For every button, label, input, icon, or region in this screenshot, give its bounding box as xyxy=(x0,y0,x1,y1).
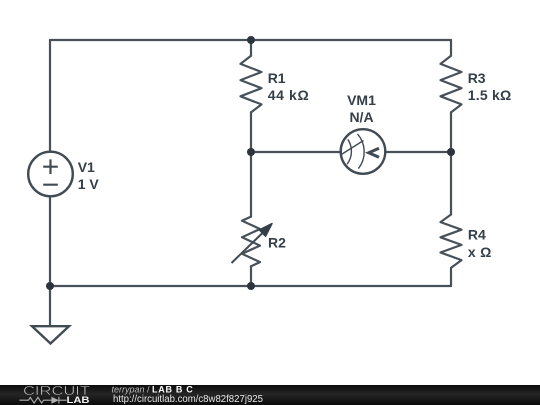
svg-text:1.5 kΩ: 1.5 kΩ xyxy=(468,87,512,103)
wire R1 bottom lead xyxy=(250,112,252,152)
resistor R3 xyxy=(441,56,462,113)
svg-text:N/A: N/A xyxy=(349,109,373,125)
logo wire squiggle with resistor and diode xyxy=(19,397,66,404)
node junction (451,152) xyxy=(447,148,455,156)
ground xyxy=(32,326,69,343)
wire middle right xyxy=(385,151,451,153)
wire R4 top lead xyxy=(450,152,452,215)
wire bottom rail xyxy=(50,285,451,287)
rheostat R2 arrow xyxy=(232,224,273,264)
wire R4 bottom lead xyxy=(450,268,452,286)
svg-text:x Ω: x Ω xyxy=(468,244,492,260)
voltmeter VM1 xyxy=(341,129,386,174)
node junction (50,286) xyxy=(46,282,54,290)
wire R2 bottom lead xyxy=(250,266,252,286)
svg-text:R2: R2 xyxy=(268,234,286,250)
wire R3 bottom lead xyxy=(450,112,452,152)
voltage source V1 xyxy=(28,152,73,197)
node junction (251,286) xyxy=(247,282,255,290)
wire R1 top lead xyxy=(250,40,252,56)
wire ground lead xyxy=(49,286,51,326)
wire R3 top lead xyxy=(450,40,452,56)
wire middle left xyxy=(251,151,341,153)
wire left lower (V1 bottom lead) xyxy=(49,196,51,286)
svg-text:R3: R3 xyxy=(468,70,486,86)
wire top rail xyxy=(50,39,451,41)
resistor R2 (rheostat zigzag) xyxy=(242,217,260,267)
svg-text:LAB: LAB xyxy=(67,395,91,405)
svg-text:44 kΩ: 44 kΩ xyxy=(268,87,309,103)
svg-text:R4: R4 xyxy=(468,227,486,243)
node junction (251,40) xyxy=(247,36,255,44)
svg-text:VM1: VM1 xyxy=(347,92,376,108)
svg-text:terrypan / LAB B C: terrypan / LAB B C xyxy=(112,384,194,394)
wire left upper (V1 top lead) xyxy=(49,40,51,152)
node junction (251,152) xyxy=(247,148,255,156)
resistor R4 xyxy=(441,215,462,268)
resistor R1 xyxy=(241,56,262,113)
svg-text:1 V: 1 V xyxy=(78,176,100,192)
svg-text:http://circuitlab.com/c8w82f82: http://circuitlab.com/c8w82f827j925 xyxy=(113,394,263,405)
svg-text:V1: V1 xyxy=(78,159,95,175)
svg-text:R1: R1 xyxy=(268,70,286,86)
wire R2 top lead xyxy=(250,152,252,217)
